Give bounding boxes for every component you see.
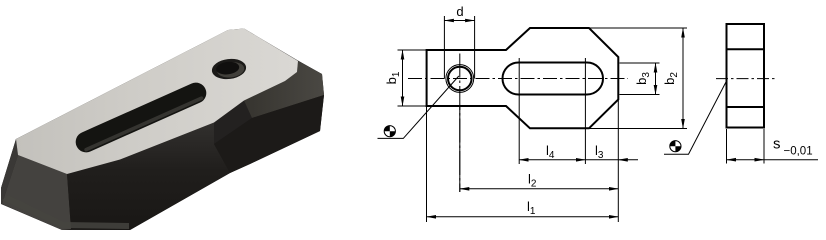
svg-text:b1: b1: [384, 71, 402, 84]
svg-text:b2: b2: [662, 72, 680, 85]
surface finish symbol 1 (checkered circle) with leader to hole: [378, 76, 459, 138]
tapped hole: [211, 57, 248, 81]
dimension l2: [460, 188, 619, 190]
dimension s : extension lines: [727, 129, 765, 164]
step top face: [244, 61, 324, 118]
dimension l3 (outside arrow at right): [585, 159, 618, 161]
svg-text:l4: l4: [546, 143, 555, 161]
dimension b1 : line with arrows: [402, 50, 404, 106]
dimension d : line with arrows: [444, 20, 474, 22]
dimension b2 : line with arrows: [682, 28, 684, 129]
front face of main body: [67, 123, 230, 231]
vertical centerline through hole: [459, 54, 461, 193]
dimension b2 : extension lines: [589, 28, 687, 129]
lower-left chamfer corner face: [2, 155, 71, 230]
side view outline: [727, 24, 765, 128]
dimension l1: [427, 216, 619, 218]
dimension b3 : line with arrows: [655, 63, 657, 95]
slot (top view): [503, 63, 604, 95]
surface finish symbol 2 (checkered circle) with leader to side view: [664, 81, 727, 154]
machined top face: [16, 29, 298, 175]
extension lines for l4 l3 l2 l1: [427, 58, 619, 222]
tapped hole d (top view): [448, 67, 472, 91]
horizontal centerline: [408, 78, 628, 80]
svg-text:l3: l3: [595, 143, 604, 161]
svg-text:b3: b3: [634, 72, 652, 85]
dark body silhouette: [1, 29, 324, 231]
dimension s : line with arrows: [727, 159, 765, 161]
inner edges: [727, 49, 765, 107]
step front face: [214, 95, 324, 173]
dimension d : extension lines: [444, 16, 474, 79]
part outline (top view): [427, 28, 619, 128]
left end face: [1, 139, 18, 204]
dimension b3 : extension lines: [620, 63, 660, 95]
slot in top face: [72, 79, 209, 155]
svg-text:l2: l2: [528, 172, 537, 190]
dimension l4: [519, 159, 585, 161]
svg-text:s: s: [773, 136, 781, 153]
side view centerline: [716, 78, 776, 80]
notch wedge front face: [214, 101, 252, 145]
svg-text:−0,01: −0,01: [784, 146, 813, 158]
svg-text:d: d: [456, 4, 463, 19]
bottom bevel strip: [2, 195, 129, 229]
dimension b1 : extension lines: [398, 50, 427, 106]
svg-text:l1: l1: [527, 199, 536, 217]
